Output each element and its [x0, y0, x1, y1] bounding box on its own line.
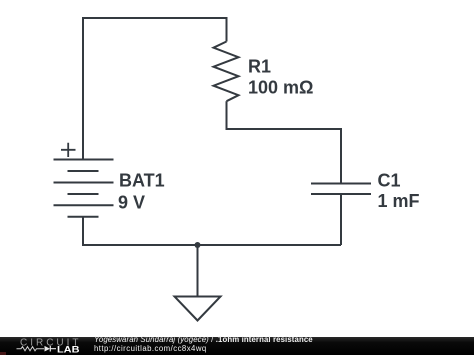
- battery BAT1 plate 5 long: [54, 204, 114, 206]
- wire BAT1 bottom lead: [82, 217, 84, 245]
- red corner mark: [0, 352, 6, 355]
- ground symbol triangle: [175, 297, 221, 321]
- wire R1 top lead: [226, 17, 228, 42]
- credit text: [94, 336, 313, 353]
- battery BAT1 plate 2 short: [68, 170, 99, 172]
- svg-text:1 mF: 1 mF: [378, 191, 420, 211]
- resistor R1 zigzag body: [214, 42, 239, 102]
- plus sign of BAT1: [61, 143, 76, 157]
- svg-text:LAB: LAB: [57, 344, 80, 354]
- logo resistor squiggle: [17, 347, 45, 351]
- footer black bar: [0, 337, 474, 355]
- svg-text:100 mΩ: 100 mΩ: [248, 78, 313, 98]
- wire middle horizontal (R1 bottom to C1 top): [226, 128, 342, 130]
- svg-text:BAT1: BAT1: [119, 171, 165, 191]
- battery BAT1 plate 1 long (positive): [54, 159, 114, 161]
- battery BAT1 plate 3 long: [54, 182, 114, 184]
- svg-text:C1: C1: [378, 171, 401, 191]
- svg-text:R1: R1: [248, 57, 271, 77]
- battery BAT1 plate 4 short: [68, 193, 99, 195]
- svg-text:9 V: 9 V: [118, 193, 145, 213]
- capacitor C1 top plate: [311, 183, 371, 185]
- wire R1 bottom lead: [226, 101, 228, 129]
- wire ground lead: [197, 245, 199, 297]
- wire C1 top lead: [340, 128, 342, 184]
- wire bottom horizontal (BAT1 - to C1 bottom): [82, 244, 341, 246]
- battery BAT1 plate 6 short (negative): [68, 216, 99, 218]
- wire left vertical (top wire down to BAT1 +): [82, 17, 84, 160]
- node junction dot: [195, 242, 201, 248]
- wire C1 bottom lead: [340, 194, 342, 245]
- logo diode: [45, 346, 51, 352]
- wire top horizontal (BAT1+ to R1 top): [83, 17, 227, 19]
- capacitor C1 bottom plate: [311, 193, 371, 195]
- CircuitLab logo: [0, 337, 90, 355]
